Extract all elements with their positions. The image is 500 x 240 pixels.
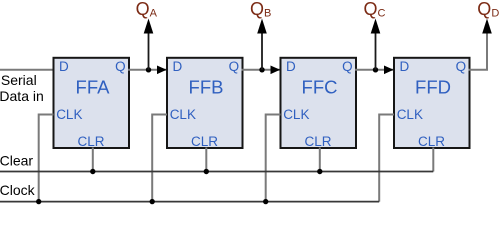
svg-text:CLR: CLR	[191, 134, 218, 149]
node Clear-FFB junction	[204, 169, 209, 174]
svg-text:D: D	[59, 59, 69, 74]
svg-text:CLK: CLK	[397, 107, 423, 122]
node Clock-FFB junction	[150, 199, 155, 204]
svg-text:Q: Q	[342, 59, 353, 74]
flip-flop FFD	[394, 58, 470, 149]
svg-text:D: D	[400, 59, 410, 74]
node Clock-FFC junction	[263, 199, 268, 204]
svg-text:Q: Q	[115, 59, 126, 74]
node Clock-FFA junction	[36, 199, 41, 204]
flip-flop FFC	[281, 58, 357, 149]
svg-text:FFD: FFD	[415, 77, 451, 98]
flip-flop FFA	[54, 58, 130, 149]
svg-text:D: D	[173, 59, 183, 74]
arrowhead into FFD D	[384, 66, 394, 75]
node Clear-FFA junction	[90, 169, 95, 174]
flip-flop FFB	[167, 58, 243, 149]
wire QD output	[469, 33, 488, 70]
arrowhead into FFB D	[157, 66, 167, 75]
svg-text:FFA: FFA	[76, 77, 111, 98]
svg-text:FFC: FFC	[302, 77, 338, 98]
node QB junction	[259, 67, 264, 72]
wire CLK elbow FFC	[266, 115, 281, 202]
arrowhead QA	[144, 19, 154, 34]
wire QC output vertical	[375, 32, 377, 70]
wire CLK elbow FFD	[379, 115, 394, 202]
wire CLR drop FFB	[205, 148, 207, 172]
wire CLR drop FFA	[92, 148, 94, 172]
arrowhead into FFC D	[271, 66, 281, 75]
wire QB to D of FFC	[242, 69, 280, 71]
wire CLK elbow FFB	[152, 115, 167, 202]
label Serial Data in	[0, 72, 44, 104]
node QA junction	[146, 67, 151, 72]
svg-text:FFB: FFB	[189, 77, 224, 98]
svg-text:CLR: CLR	[418, 134, 445, 149]
svg-text:Q: Q	[229, 59, 240, 74]
svg-text:Q: Q	[456, 59, 467, 74]
node QC junction	[373, 67, 378, 72]
svg-text:CLR: CLR	[78, 134, 105, 149]
wire CLR drop FFC	[319, 148, 321, 172]
svg-text:CLK: CLK	[170, 107, 196, 122]
svg-text:Data in: Data in	[0, 88, 44, 104]
svg-text:Clear: Clear	[0, 153, 33, 169]
svg-text:CLK: CLK	[56, 107, 82, 122]
wire serial data in	[0, 69, 54, 71]
svg-text:Serial: Serial	[1, 72, 37, 88]
wire CLR drop FFD	[432, 148, 434, 172]
wire QA output vertical	[148, 32, 150, 70]
wire Clear bus	[0, 171, 433, 173]
node Clear-FFC junction	[317, 169, 322, 174]
svg-text:D: D	[286, 59, 296, 74]
wire QA to D of FFB	[128, 69, 166, 71]
wire Clock bus	[0, 201, 379, 203]
svg-text:Clock: Clock	[0, 182, 36, 198]
wire QB output vertical	[261, 32, 263, 70]
arrowhead QC	[371, 19, 381, 34]
wire CLK elbow FFA	[39, 115, 54, 202]
wire QC to D of FFD	[355, 69, 393, 71]
svg-text:CLR: CLR	[305, 134, 332, 149]
svg-text:CLK: CLK	[283, 107, 309, 122]
arrowhead QB	[257, 19, 267, 34]
arrowhead QD	[482, 19, 492, 34]
